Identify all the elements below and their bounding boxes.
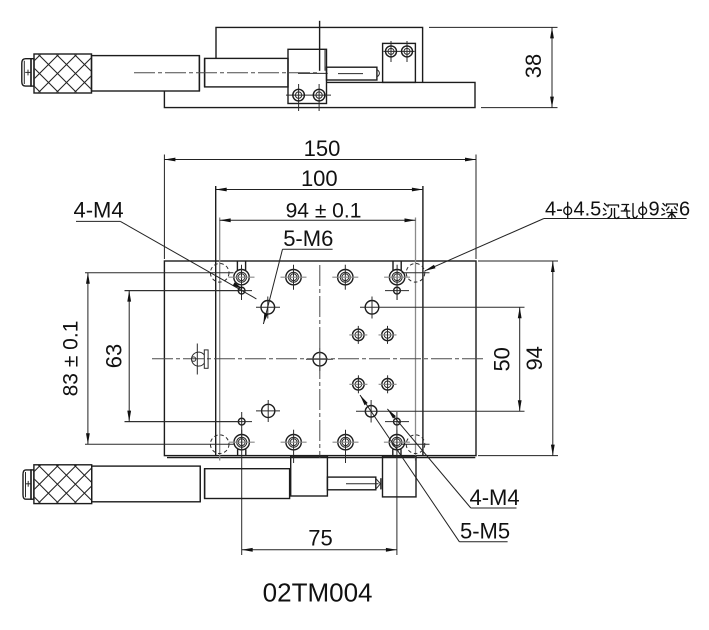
spindle (upper) bbox=[327, 67, 377, 80]
micrometer sleeve (upper) bbox=[205, 58, 288, 87]
leader 5-M6 bbox=[283, 248, 333, 250]
base plate (side view) bbox=[164, 82, 475, 107]
dim 75 ext lines bbox=[241, 412, 243, 555]
M5 hole 4 bbox=[382, 379, 394, 391]
dim 150 extension lines bbox=[163, 155, 165, 260]
svg-text:63: 63 bbox=[102, 344, 127, 368]
dim 63 ext lines bbox=[125, 290, 241, 292]
spindle (lower) bbox=[327, 477, 375, 490]
knurled knob (lower) bbox=[34, 465, 92, 504]
clamp screw S2 bbox=[313, 89, 325, 101]
dim 150 line bbox=[164, 159, 476, 161]
counterbore hole TL bbox=[210, 264, 229, 283]
spindle tip (lower) bbox=[376, 478, 381, 489]
centerline (upper view) bbox=[134, 72, 319, 74]
M5 hole 1 bbox=[353, 329, 365, 341]
leader 5-M5 bbox=[459, 541, 507, 543]
knurled knob (upper) bbox=[34, 54, 92, 93]
svg-text:5-M5: 5-M5 bbox=[460, 519, 510, 544]
clamp screw S1 bbox=[293, 89, 305, 101]
barrel-sleeve junction (upper) bbox=[198, 56, 200, 91]
lower view top edge bbox=[167, 457, 475, 459]
plate vertical centerline bbox=[319, 265, 321, 458]
cap screw A2 bbox=[286, 270, 301, 285]
plate outline 150x94 bbox=[164, 261, 476, 456]
svg-text:4.5: 4.5 bbox=[574, 199, 602, 221]
M5 hole 3 bbox=[353, 379, 365, 391]
hole row line right top bbox=[402, 272, 430, 274]
cap-knurl ring (upper) bbox=[31, 59, 34, 86]
clamp screws crosshair bbox=[286, 94, 331, 96]
leader 4-M4 top-left bbox=[76, 220, 120, 222]
dim 63 line bbox=[128, 291, 130, 422]
dim 38 line bbox=[551, 27, 553, 107]
svg-text:4-: 4- bbox=[545, 199, 563, 221]
cap screw B4 bbox=[389, 435, 404, 450]
plate horizontal centerline bbox=[152, 358, 486, 360]
micrometer barrel (upper) bbox=[92, 56, 200, 91]
center mark (upper view) bbox=[319, 21, 321, 71]
dim 83 tol line bbox=[87, 273, 89, 444]
dim 94 line bbox=[552, 261, 554, 456]
counterbore hole TR bbox=[406, 264, 425, 283]
retaining clip on leadscrew bbox=[192, 352, 205, 366]
svg-text:50: 50 bbox=[490, 347, 515, 371]
M4 hole TR bbox=[394, 287, 401, 294]
M6 hole TR bbox=[365, 301, 379, 315]
spindle centerline (lower) bbox=[346, 483, 379, 485]
top platform (side view) bbox=[216, 27, 423, 82]
dim 38 extension lines bbox=[429, 26, 558, 28]
anvil screws crosshair bbox=[384, 50, 415, 52]
svg-text:75: 75 bbox=[308, 526, 332, 551]
M6 hole center bbox=[313, 352, 327, 366]
micrometer barrel (lower) bbox=[92, 466, 201, 502]
hole row line / 83 ext bottom bbox=[85, 443, 234, 445]
anvil screw S3 bbox=[386, 46, 397, 57]
svg-text:94: 94 bbox=[522, 346, 547, 370]
counterbore centerline right bbox=[415, 218, 417, 461]
hole row line / 83 ext top bbox=[85, 272, 234, 274]
svg-text:100: 100 bbox=[301, 166, 338, 191]
leader 4-dia4.5 counterbore top-right bbox=[544, 218, 687, 220]
cap-knurl ring (lower) bbox=[31, 470, 34, 499]
cap screw A1 bbox=[234, 270, 249, 285]
M6 hole TL bbox=[261, 301, 275, 315]
svg-text:4-M4: 4-M4 bbox=[74, 198, 124, 223]
dim 50 line bbox=[519, 307, 521, 411]
micrometer sleeve (lower) bbox=[205, 469, 290, 499]
platform edge left bbox=[215, 186, 217, 456]
svg-text:6: 6 bbox=[679, 199, 690, 221]
svg-text:4-M4: 4-M4 bbox=[470, 485, 520, 510]
clamp block (lower) bbox=[291, 456, 328, 496]
M6 hole BR bbox=[365, 406, 377, 418]
dim 75 line bbox=[242, 549, 397, 551]
hole row line right bottom bbox=[402, 443, 430, 445]
counterbore centerline left bbox=[219, 218, 221, 461]
svg-text:9: 9 bbox=[649, 199, 660, 221]
dim 100 line bbox=[216, 189, 423, 191]
M4 hole TL bbox=[238, 287, 245, 294]
cap screw B3 bbox=[338, 435, 353, 450]
svg-text:02TM004: 02TM004 bbox=[263, 578, 373, 608]
dim 94 tol line bbox=[220, 219, 416, 221]
M4 hole BL bbox=[238, 418, 245, 425]
clamp block (upper) bbox=[288, 49, 327, 103]
micrometer cap (upper view) bbox=[22, 59, 31, 86]
micrometer cap (lower view) bbox=[23, 470, 31, 499]
platform edge right bbox=[422, 186, 424, 456]
cap screw A4 bbox=[389, 270, 404, 285]
svg-text:5-M6: 5-M6 bbox=[283, 226, 333, 251]
dim 94 ext lines bbox=[478, 260, 558, 262]
leader 4-M4 bottom-right bbox=[471, 507, 517, 509]
anvil screw S4 bbox=[402, 46, 413, 57]
cap screw A3 bbox=[338, 270, 353, 285]
barrel-sleeve junction (lower) bbox=[199, 466, 201, 502]
anvil block (lower) bbox=[383, 456, 417, 497]
svg-text:83 ± 0.1: 83 ± 0.1 bbox=[60, 321, 83, 397]
M6 hole BL bbox=[262, 404, 275, 417]
M5 hole 2 bbox=[382, 329, 394, 341]
M4 hole BR bbox=[394, 418, 401, 425]
cap screw B1 bbox=[234, 435, 249, 450]
anvil block (upper) bbox=[383, 43, 416, 82]
cap screw B2 bbox=[286, 435, 301, 450]
svg-text:150: 150 bbox=[304, 136, 341, 161]
counterbore hole BR bbox=[406, 435, 425, 454]
svg-text:94 ± 0.1: 94 ± 0.1 bbox=[286, 200, 362, 223]
counterbore hole BL bbox=[210, 435, 229, 454]
svg-text:38: 38 bbox=[521, 54, 546, 78]
